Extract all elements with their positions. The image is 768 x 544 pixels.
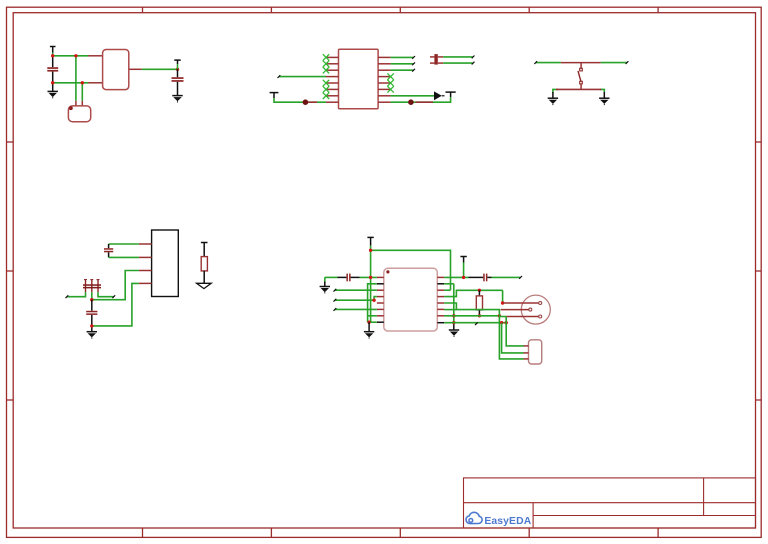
header J1 [430,54,443,65]
junction J1 [303,99,309,105]
wire pin8L [274,98,326,102]
wire switch top left [534,61,561,64]
node dot [90,324,93,327]
wire to P2 pin3 [499,310,523,359]
P1 pads [529,302,542,319]
wire crystal left [75,56,77,101]
node dots [51,54,84,84]
node dots [369,249,372,279]
wire pin4L jog [334,297,377,302]
wire C4 center [91,292,93,299]
wire P2 pin1 [506,317,523,346]
connector P2 [529,340,542,364]
capacitor C4 dual [83,280,101,293]
wire vertical from T [370,246,372,323]
crystal Y1 [68,106,90,122]
wire crystal right [81,83,83,101]
capacitor C6 [325,274,377,282]
IC U2 [339,49,379,108]
no-connect X flags right [387,73,393,92]
wire switch top right [601,61,629,64]
wire C3 bottom [109,256,139,258]
U3 right pins black [437,284,444,323]
IC U1 [103,50,129,90]
ground GND7 [449,330,459,337]
P1 pin top [503,302,539,304]
IC U3 [384,268,438,331]
wire pin6R [444,309,456,311]
node dot [176,68,179,71]
wire pin3L [334,289,377,292]
connector J2 [152,230,179,297]
wire vertical B [452,284,455,330]
U3 left pins [377,277,384,315]
wire C4 right [98,292,115,298]
wire pin7R [391,95,434,97]
ground GND1 [48,91,58,98]
wire pin3 J2 [92,271,139,300]
wire pin8R [391,97,451,102]
junction J2 [408,99,414,105]
mic P1 [521,295,550,324]
capacitor C7 [468,274,491,282]
wire pin4 J2 [92,283,139,326]
wire C3 top [109,243,139,245]
wire C4 left [66,292,86,298]
wire switch bottom [553,89,604,93]
capacitor C3 [104,244,113,257]
no-connect X flags left [323,54,329,99]
node dot [90,298,93,301]
netflag arrow [434,91,445,100]
P1 pin mid [501,309,529,311]
power flag T left [270,93,279,98]
wire pin2L [368,284,377,322]
wire loop right [501,290,504,304]
wire pin3R [444,289,450,291]
power flag T right [446,92,456,97]
wire pin1R [444,276,522,279]
wire pin6L [334,308,377,311]
wire XO [53,82,89,84]
wire pin7R loop bottom [444,314,501,317]
ground GND3 [548,92,558,105]
ground GND6 [364,322,374,338]
ground GND4 [599,92,609,105]
capacitor C1 [47,56,58,91]
capacitor C5 [86,300,97,332]
P1 pin bottom [499,316,538,318]
power flag VCC1 [50,47,56,56]
power flag T mid [460,257,466,278]
wire P2 pin2 [502,323,524,353]
ground left [320,277,330,293]
wire pin7L [368,315,377,317]
U3 right pins [437,277,444,315]
J2 pins [139,244,152,283]
wires pins1-3 right [391,56,415,72]
switch SW1 [561,63,601,90]
U3 left pins black [377,284,384,322]
title block [464,478,756,528]
EasyEDA logo [466,512,532,527]
ground GND5 [87,332,97,339]
resistor R1 [197,243,212,289]
P2 pins [524,346,529,359]
wire top loop [371,250,451,290]
op-amp U1 pins [76,56,142,106]
wire XI [53,55,89,57]
wire pin4R loop top [444,289,502,297]
U2 left pins [326,57,339,102]
power flag T top [367,237,373,245]
wire pin4L [278,75,327,78]
ground GND2 [172,96,182,103]
power flag VCC2 [174,60,180,69]
header wires [443,56,474,65]
capacitor C2 [172,69,184,95]
node dot [462,276,465,279]
node dot [367,321,370,324]
wire pin2R [444,283,454,285]
wire pin8L [371,321,377,323]
resistor R2 [476,290,482,317]
wire pin5R [444,303,500,310]
wire pin8R [444,321,508,325]
svg-text:EasyEDA: EasyEDA [484,516,531,527]
U2 right pins [378,57,391,102]
wire U1 output [142,68,178,70]
